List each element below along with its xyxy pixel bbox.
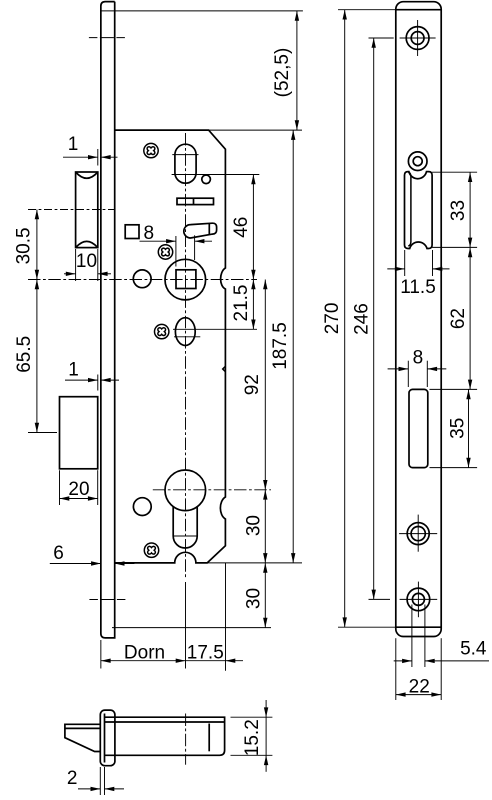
case bottom extension to the right: [207, 562, 302, 564]
dim 20 line: [60, 498, 98, 500]
22 dim line: [396, 694, 441, 696]
35 dim line: [468, 389, 470, 467]
case bar top view: [105, 717, 225, 755]
faceplate section: [100, 710, 115, 766]
dim 92 line: [264, 280, 266, 490]
small circle beside obround: [202, 175, 211, 184]
dim 30.5 line: [36, 210, 38, 280]
15.2 dim line: [265, 700, 267, 772]
svg-text:30: 30: [244, 515, 265, 536]
5.4 extensions: [411, 605, 413, 668]
Dorn extensions: [100, 640, 102, 669]
dim 1 latch : tick: [97, 149, 99, 166]
follower centerline / extension y=279.5: [28, 279, 257, 281]
35 extensions: [430, 388, 478, 390]
dim 187.5 line: [292, 130, 294, 563]
8 dim lines: [388, 368, 409, 370]
svg-text:33: 33: [448, 200, 469, 221]
dim 46 line: [252, 175, 254, 280]
svg-text:1: 1: [68, 134, 79, 155]
cylinder centerline y=489.8: [153, 489, 271, 491]
svg-text:246: 246: [351, 303, 372, 335]
slide bar: [177, 198, 214, 204]
22 extensions: [395, 638, 397, 700]
dim 1 latch : lines: [63, 156, 98, 158]
follower hub circle: [165, 259, 206, 300]
62 dim line: [469, 247, 471, 389]
dim 30 lower line: [264, 563, 266, 628]
6-dim line left extension at case bottom: [50, 563, 101, 565]
5.4 dim lines: [394, 660, 412, 662]
svg-text:92: 92: [242, 374, 263, 395]
texts bottom view: [67, 719, 263, 789]
270 dim line: [344, 10, 346, 628]
latch cutout: [405, 172, 433, 249]
246 bottom extension: [369, 598, 391, 600]
dim 65.5 line: [36, 280, 38, 433]
vertical centerline of lock: [185, 133, 187, 578]
dim 10 : lines: [64, 273, 76, 275]
top extension line from faceplate top: [101, 10, 303, 12]
svg-text:30: 30: [244, 588, 265, 609]
svg-text:1: 1: [68, 360, 79, 381]
svg-text:30.5: 30.5: [14, 227, 35, 264]
11.5 dim lines: [387, 268, 404, 270]
cylinder fixing hole oval: [174, 318, 200, 346]
euro profile cylinder hole: [165, 470, 206, 548]
17.5 dim line: [186, 660, 226, 662]
pawl lever: [184, 223, 217, 238]
33 dim line: [469, 172, 471, 247]
latch wedge top view: [65, 724, 100, 751]
deadbolt centerline extension: [28, 432, 57, 434]
circle left of cylinder: [133, 498, 151, 516]
svg-text:2: 2: [67, 768, 78, 789]
faceplate top screw mark: [89, 37, 127, 39]
svg-text:15.2: 15.2: [242, 719, 263, 756]
screw S3: [155, 324, 169, 338]
arrowheads bottom view: [91, 707, 269, 791]
plate top inner line: [396, 9, 441, 11]
deadbolt: [60, 397, 98, 469]
texts main view: [14, 48, 293, 664]
2 dim lines: [78, 788, 100, 790]
svg-text:10: 10: [76, 251, 97, 272]
svg-text:20: 20: [68, 479, 89, 500]
screw S1: [144, 143, 158, 157]
lower screw hole A: [407, 523, 429, 545]
dim 1 deadbolt : lines: [65, 379, 98, 381]
svg-text:35: 35: [448, 418, 469, 439]
texts right view: [322, 200, 487, 697]
dim square8 : extensions: [175, 236, 177, 267]
obround chord: [172, 154, 198, 156]
lower screw hole B: [407, 588, 430, 611]
dim 30 upper line: [264, 490, 266, 563]
cover plate outline: [396, 2, 441, 637]
dim 21.5 line: [252, 280, 254, 330]
11.5 extensions: [404, 250, 406, 276]
svg-text:Dorn: Dorn: [124, 643, 165, 664]
33 extensions: [432, 171, 477, 173]
svg-text:11.5: 11.5: [400, 277, 436, 298]
latch bolt: [76, 172, 98, 248]
svg-text:62: 62: [448, 308, 469, 329]
case top extension to the right: [209, 129, 302, 131]
dim square8 : lines: [140, 240, 176, 242]
dim (52,5) line: [296, 11, 298, 130]
Dorn dim line: [101, 660, 186, 662]
dim 1 deadbolt : tick: [97, 375, 99, 391]
246 top extension: [369, 37, 394, 39]
extension line y=174.5 (46 top): [172, 174, 260, 176]
latch follower obround: [175, 144, 196, 183]
arrowheads main view: [35, 11, 299, 663]
square symbol for 8mm follower: [125, 225, 139, 239]
svg-text:8: 8: [413, 347, 424, 368]
faceplate bottom screw mark: [89, 599, 126, 601]
screw S2: [158, 245, 172, 259]
small guide hole: [408, 152, 427, 171]
svg-text:8: 8: [144, 223, 155, 244]
246 dim line: [373, 38, 375, 599]
svg-text:17.5: 17.5: [187, 643, 224, 664]
21.5 extension line y=329.3: [173, 328, 257, 330]
svg-text:21.5: 21.5: [231, 285, 252, 322]
dim 10 : extensions: [75, 249, 77, 281]
2 extensions: [99, 767, 101, 795]
svg-text:(52,5): (52,5): [272, 48, 293, 98]
svg-text:5.4: 5.4: [460, 639, 487, 660]
lock case outline: [115, 130, 226, 563]
top screw crosshair: [400, 37, 436, 39]
svg-text:22: 22: [409, 676, 430, 697]
screw A crosshair: [399, 533, 437, 535]
270 bottom extension: [338, 626, 396, 628]
deadbolt cutout: [409, 389, 428, 467]
svg-text:270: 270: [322, 303, 343, 335]
270 top extension: [338, 9, 396, 11]
8 extensions: [407, 361, 409, 387]
svg-text:6: 6: [53, 543, 64, 564]
dim 20 : extensions: [59, 470, 61, 505]
screw B crosshair: [400, 598, 438, 600]
svg-text:46: 46: [231, 217, 252, 238]
screw S4: [144, 543, 158, 557]
svg-text:187.5: 187.5: [270, 322, 291, 370]
15.2 extensions: [231, 716, 273, 718]
joggle mark on case edge: [223, 366, 226, 371]
follower square hole: [176, 270, 196, 289]
faceplate (front plate): [101, 2, 115, 638]
extension line y=627.6 (30 bottom): [112, 627, 271, 629]
plate bottom inner line: [396, 626, 441, 628]
latch centerline: [28, 209, 114, 211]
arrowheads right view: [343, 10, 473, 697]
circle left of follower: [133, 270, 151, 288]
top screw hole: [406, 27, 429, 50]
svg-text:65.5: 65.5: [14, 336, 35, 373]
bottom view centerline: [185, 714, 187, 765]
